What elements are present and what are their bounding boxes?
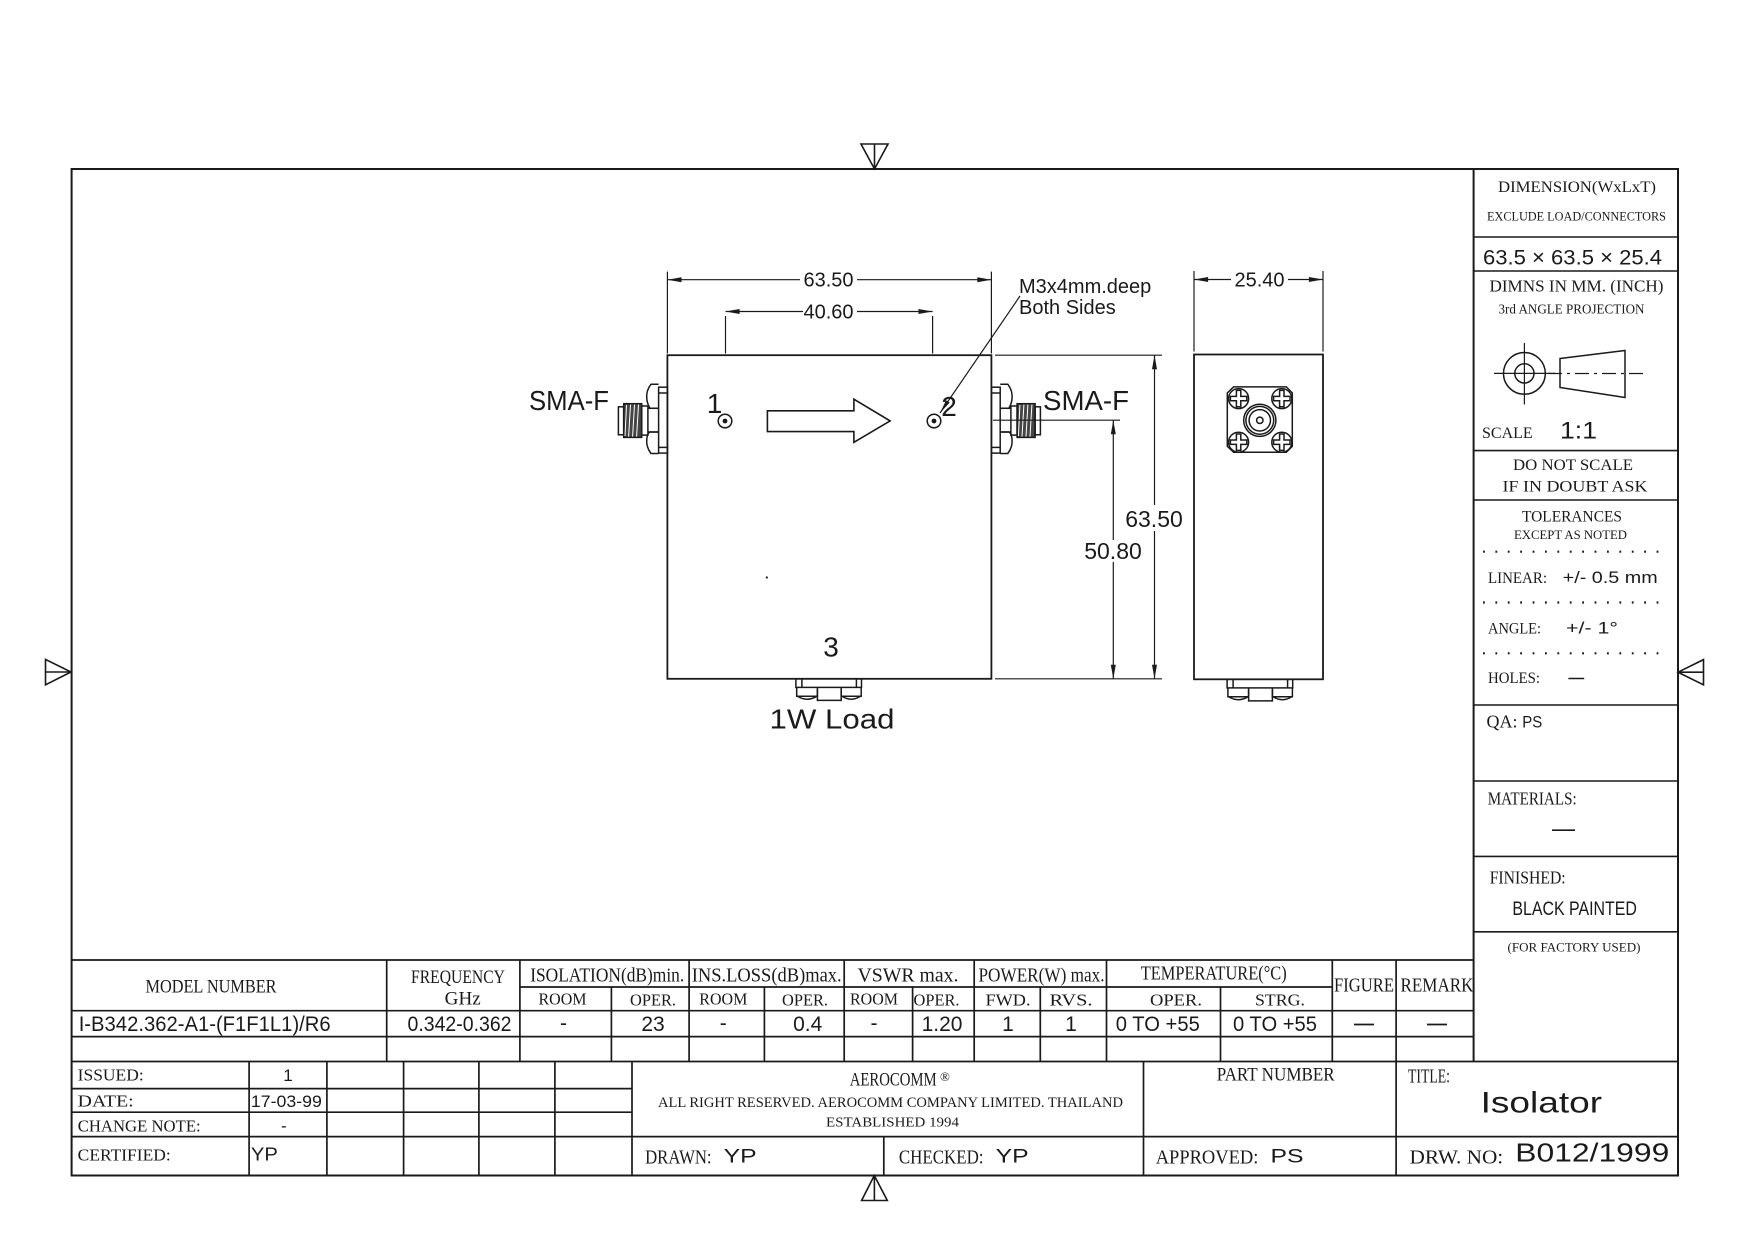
info row line below EXCLUDE	[1474, 236, 1678, 238]
svg-text:-: -	[281, 1117, 287, 1136]
spec table vertical lines	[386, 960, 388, 1062]
svg-text:YP: YP	[996, 1147, 1029, 1168]
bottom block horizontal lines	[72, 1088, 632, 1090]
spec table data row	[79, 1012, 1317, 1036]
svg-text:3: 3	[823, 632, 839, 663]
sheet border	[72, 169, 1678, 1176]
dim 63.50 top extension lines	[666, 272, 668, 354]
info row line below size	[1474, 270, 1678, 272]
svg-text:OPER.: OPER.	[1150, 991, 1202, 1010]
svg-text:PS: PS	[1271, 1147, 1304, 1168]
svg-text:APPROVED:: APPROVED:	[1156, 1147, 1259, 1169]
info row line below IF IN DOUBT	[1474, 499, 1678, 501]
svg-text:POWER(W) max.: POWER(W) max.	[979, 965, 1105, 987]
svg-text:DIMENSION(WxLxT): DIMENSION(WxLxT)	[1498, 179, 1656, 196]
svg-text:-: -	[560, 1012, 567, 1035]
info row line below HOLES	[1474, 704, 1678, 706]
svg-text:ALL RIGHT RESERVED. AEROCOMM C: ALL RIGHT RESERVED. AEROCOMM COMPANY LIM…	[658, 1095, 1123, 1111]
svg-text:FIGURE: FIGURE	[1334, 975, 1394, 997]
svg-text:STRG.: STRG.	[1255, 991, 1305, 1010]
svg-text:1.20: 1.20	[922, 1013, 963, 1036]
svg-text:YP: YP	[724, 1147, 757, 1168]
svg-text:1: 1	[707, 388, 723, 419]
svg-text:VSWR max.: VSWR max.	[858, 965, 959, 987]
svg-text:Both Sides: Both Sides	[1019, 297, 1116, 319]
drawn/checked/approved row	[645, 1147, 1503, 1169]
front view body outline	[667, 355, 991, 679]
spec table header texts	[146, 963, 1474, 1010]
dim 63.50 top dimension line	[667, 279, 800, 281]
svg-text:FREQUENCY: FREQUENCY	[411, 967, 505, 988]
info row line below SCALE	[1474, 450, 1678, 452]
svg-text:M3x4mm.deep: M3x4mm.deep	[1019, 276, 1151, 298]
svg-text:PS: PS	[1522, 713, 1542, 732]
svg-text:DIMNS IN MM. (INCH): DIMNS IN MM. (INCH)	[1490, 277, 1664, 296]
svg-text:0 TO +55: 0 TO +55	[1116, 1013, 1200, 1036]
svg-text:TOLERANCES: TOLERANCES	[1522, 509, 1622, 526]
port 1 hole	[718, 414, 732, 428]
tolerance dotted separators	[1483, 552, 1668, 654]
svg-text:RVS.: RVS.	[1050, 991, 1093, 1010]
dim 50.80 dimension line	[1112, 420, 1114, 540]
svg-text:INS.LOSS(dB)max.: INS.LOSS(dB)max.	[692, 965, 842, 987]
svg-text:0.342-0.362: 0.342-0.362	[408, 1013, 512, 1036]
svg-text:1: 1	[1065, 1013, 1077, 1036]
svg-text:Isolator: Isolator	[1481, 1087, 1603, 1120]
svg-text:+/- 0.5 mm: +/- 0.5 mm	[1563, 568, 1658, 587]
svg-text:BLACK PAINTED: BLACK PAINTED	[1512, 899, 1637, 920]
MATERIALS dash	[1552, 829, 1575, 831]
svg-text:YP: YP	[251, 1145, 278, 1165]
svg-text:1:1: 1:1	[1560, 418, 1597, 445]
svg-text:MATERIALS:: MATERIALS:	[1488, 789, 1577, 809]
dim 63.50 right vertical: extension lines	[995, 354, 1162, 356]
svg-text:DO NOT SCALE: DO NOT SCALE	[1513, 457, 1633, 474]
svg-text:ROOM: ROOM	[699, 990, 747, 1009]
svg-text:HOLES:: HOLES:	[1488, 670, 1540, 687]
svg-text:AEROCOMM: AEROCOMM	[850, 1070, 937, 1091]
svg-text:SMA-F: SMA-F	[1043, 385, 1129, 416]
svg-text:3rd ANGLE PROJECTION: 3rd ANGLE PROJECTION	[1499, 303, 1645, 318]
dim arrowheads	[667, 277, 681, 282]
right SMA-F connector profile	[991, 384, 1040, 453]
svg-text:LINEAR:: LINEAR:	[1488, 570, 1547, 587]
svg-text:ISSUED:: ISSUED:	[78, 1066, 144, 1085]
svg-text:EXCLUDE LOAD/CONNECTORS: EXCLUDE LOAD/CONNECTORS	[1487, 210, 1666, 224]
left SMA-F connector profile	[618, 384, 667, 453]
svg-text:QA:: QA:	[1487, 712, 1518, 732]
svg-text:23: 23	[641, 1013, 664, 1036]
port 2 hole	[927, 414, 941, 428]
info row line below QA	[1474, 780, 1678, 782]
HOLES dash	[1568, 678, 1584, 680]
svg-text:B012/1999: B012/1999	[1515, 1138, 1669, 1168]
front view texts	[529, 385, 1129, 735]
svg-text:GHz: GHz	[445, 989, 481, 1010]
svg-text:63.50: 63.50	[803, 270, 853, 292]
svg-text:OPER.: OPER.	[782, 991, 828, 1010]
svg-text:(FOR FACTORY USED): (FOR FACTORY USED)	[1508, 941, 1641, 955]
left centering mark	[46, 659, 72, 684]
svg-text:DRW. NO:: DRW. NO:	[1410, 1147, 1504, 1169]
right centering mark	[1678, 660, 1704, 685]
bottom load connector (front view)	[796, 679, 862, 701]
svg-text:0 TO +55: 0 TO +55	[1233, 1013, 1317, 1036]
svg-text:+/- 1°: +/- 1°	[1566, 619, 1618, 638]
svg-text:OPER.: OPER.	[630, 991, 676, 1010]
top centering mark	[861, 144, 888, 169]
bottom load connector (side view)	[1227, 679, 1293, 701]
svg-text:MODEL NUMBER: MODEL NUMBER	[146, 977, 277, 998]
svg-text:®: ®	[940, 1069, 950, 1084]
info row line below FINISHED	[1474, 931, 1678, 933]
svg-text:I-B342.362-A1-(F1F1L1)/R6: I-B342.362-A1-(F1F1L1)/R6	[79, 1013, 331, 1036]
svg-text:CERTIFIED:: CERTIFIED:	[78, 1146, 171, 1165]
svg-text:DRAWN:: DRAWN:	[645, 1147, 712, 1169]
svg-text:CHANGE NOTE:: CHANGE NOTE:	[78, 1117, 201, 1136]
dim 40.60 dimension line	[726, 311, 804, 313]
dim 40.60 extension lines	[725, 316, 727, 354]
svg-text:ANGLE:: ANGLE:	[1488, 621, 1541, 638]
bottom block vertical lines	[248, 1062, 250, 1175]
svg-text:1: 1	[1002, 1013, 1014, 1036]
svg-text:PART NUMBER: PART NUMBER	[1217, 1065, 1335, 1086]
svg-text:FINISHED:: FINISHED:	[1490, 868, 1566, 888]
svg-text:TEMPERATURE(°C): TEMPERATURE(°C)	[1141, 963, 1287, 985]
svg-text:1W Load: 1W Load	[770, 704, 895, 735]
svg-text:ISOLATION(dB)min.: ISOLATION(dB)min.	[530, 965, 684, 987]
svg-text:FWD.: FWD.	[986, 991, 1031, 1010]
svg-text:DATE:: DATE:	[78, 1092, 134, 1111]
stray dot	[766, 576, 768, 578]
info column texts	[1482, 179, 1666, 955]
dim 63.50 right vertical dimension line	[1154, 355, 1156, 505]
side view body outline	[1194, 355, 1323, 680]
svg-text:OPER.: OPER.	[914, 991, 960, 1010]
svg-text:40.60: 40.60	[803, 301, 853, 323]
figure/remark dashes	[1354, 1024, 1374, 1026]
svg-text:IF IN DOUBT ASK: IF IN DOUBT ASK	[1503, 479, 1648, 496]
svg-text:EXCEPT AS NOTED: EXCEPT AS NOTED	[1514, 528, 1627, 542]
leader line for M3 note	[940, 296, 1020, 413]
bottom block labels	[78, 1066, 201, 1165]
svg-text:1: 1	[283, 1066, 292, 1085]
svg-text:50.80: 50.80	[1084, 538, 1142, 564]
forward power arrow	[767, 399, 890, 442]
aerocomm block	[658, 1069, 1123, 1130]
svg-text:-: -	[871, 1012, 878, 1035]
svg-text:ROOM: ROOM	[850, 990, 898, 1009]
svg-text:TITLE:: TITLE:	[1408, 1066, 1450, 1088]
leader arrowhead	[940, 400, 950, 413]
svg-text:SCALE: SCALE	[1482, 425, 1533, 442]
third angle projection symbol	[1494, 343, 1648, 405]
svg-text:63.5 × 63.5 × 25.4: 63.5 × 63.5 × 25.4	[1483, 247, 1662, 270]
svg-text:17-03-99: 17-03-99	[251, 1092, 322, 1111]
spec table horizontal lines	[72, 959, 1474, 961]
SMA flange face (side view)	[1227, 387, 1292, 452]
bottom centering mark	[862, 1176, 888, 1201]
svg-text:ESTABLISHED 1994: ESTABLISHED 1994	[826, 1115, 959, 1130]
sma centerline to 50.80 extension	[993, 419, 1120, 421]
svg-text:25.40: 25.40	[1234, 269, 1284, 291]
svg-text:ROOM: ROOM	[539, 990, 587, 1009]
svg-text:REMARK: REMARK	[1401, 975, 1474, 997]
svg-text:CHECKED:: CHECKED:	[899, 1147, 984, 1169]
svg-text:0.4: 0.4	[793, 1013, 823, 1036]
dim 25.40 (side view)	[1194, 271, 1323, 352]
svg-text:63.50: 63.50	[1125, 506, 1183, 532]
info column left divider	[1473, 169, 1475, 1062]
part number / title	[1217, 1065, 1450, 1088]
svg-text:SMA-F: SMA-F	[529, 385, 609, 416]
svg-text:-: -	[720, 1012, 727, 1035]
info row line below MATERIALS	[1474, 855, 1678, 857]
